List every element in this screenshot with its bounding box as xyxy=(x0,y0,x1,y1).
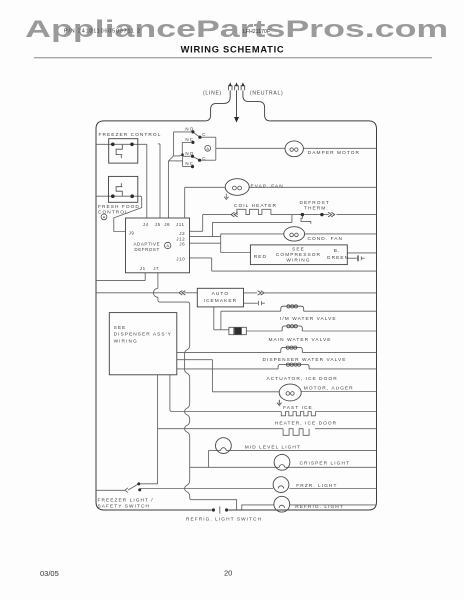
svg-text:COND. FAN: COND. FAN xyxy=(308,236,344,242)
svg-text:(NEUTRAL): (NEUTRAL) xyxy=(250,91,283,97)
svg-text:ICEMAKER: ICEMAKER xyxy=(204,298,237,304)
svg-text:NO: NO xyxy=(185,151,194,156)
svg-text:FAST ICE: FAST ICE xyxy=(283,405,313,411)
svg-text:FREEZER LIGHT /: FREEZER LIGHT / xyxy=(98,497,154,503)
svg-text:FRESH FOOD: FRESH FOOD xyxy=(98,204,140,210)
svg-text:CONTROL: CONTROL xyxy=(98,209,129,215)
svg-text:NC: NC xyxy=(185,161,194,166)
svg-text:REFRIG. LIGHT SWITCH: REFRIG. LIGHT SWITCH xyxy=(186,517,262,523)
svg-text:EVAP. FAN: EVAP. FAN xyxy=(251,184,284,190)
svg-text:WIRING: WIRING xyxy=(114,339,138,345)
svg-text:COIL HEATER: COIL HEATER xyxy=(234,203,277,209)
svg-text:DEFROST: DEFROST xyxy=(134,247,159,252)
svg-text:MOTOR, AUGER: MOTOR, AUGER xyxy=(304,386,354,392)
svg-text:I/M WATER VALVE: I/M WATER VALVE xyxy=(280,316,337,322)
svg-text:REFRIG. LIGHT: REFRIG. LIGHT xyxy=(295,504,344,510)
svg-text:THERM.: THERM. xyxy=(304,206,329,212)
svg-text:03/05: 03/05 xyxy=(40,569,59,578)
svg-text:SEE: SEE xyxy=(292,247,305,253)
svg-text:C: C xyxy=(202,156,206,161)
svg-text:B.: B. xyxy=(334,248,341,254)
svg-text:J1: J1 xyxy=(140,266,146,271)
svg-text:SEE: SEE xyxy=(114,325,127,331)
svg-text:P/N 241011060503711 2: P/N 241011060503711 2 xyxy=(64,29,141,35)
svg-text:MID LEVEL LIGHT: MID LEVEL LIGHT xyxy=(245,445,301,451)
svg-text:J2: J2 xyxy=(179,231,185,236)
svg-text:CRISPER LIGHT: CRISPER LIGHT xyxy=(300,461,350,467)
svg-text:J5: J5 xyxy=(155,222,161,227)
svg-text:MAIN WATER VALVE: MAIN WATER VALVE xyxy=(269,337,332,343)
svg-text:NC: NC xyxy=(185,137,194,142)
svg-text:20: 20 xyxy=(224,569,232,578)
svg-text:J6: J6 xyxy=(179,241,185,246)
svg-text:ACTUATOR, ICE DOOR: ACTUATOR, ICE DOOR xyxy=(267,376,338,382)
svg-text:AUTO: AUTO xyxy=(212,291,229,297)
svg-text:LFH21170F: LFH21170F xyxy=(243,29,270,35)
svg-text:NO: NO xyxy=(185,126,194,131)
svg-text:(LINE): (LINE) xyxy=(203,90,222,96)
svg-text:FRZR. LIGHT: FRZR. LIGHT xyxy=(296,483,337,489)
svg-text:DAMPER MOTOR: DAMPER MOTOR xyxy=(308,150,360,156)
svg-text:FREEZER CONTROL: FREEZER CONTROL xyxy=(99,132,162,138)
svg-text:DISPENSER ASS'Y: DISPENSER ASS'Y xyxy=(114,332,172,338)
svg-text:DISPENSER WATER VALVE: DISPENSER WATER VALVE xyxy=(263,357,347,363)
svg-text:J10: J10 xyxy=(176,257,185,262)
svg-text:COMPRESSOR: COMPRESSOR xyxy=(276,252,321,258)
svg-text:WIRING SCHEMATIC: WIRING SCHEMATIC xyxy=(181,44,285,54)
svg-text:GREEN: GREEN xyxy=(327,255,349,261)
svg-text:A: A xyxy=(166,243,169,248)
svg-text:SAFETY SWITCH: SAFETY SWITCH xyxy=(98,503,150,509)
svg-text:C: C xyxy=(202,132,206,137)
svg-text:J11: J11 xyxy=(176,222,185,227)
svg-text:A: A xyxy=(206,146,209,151)
svg-text:ADAPTIVE: ADAPTIVE xyxy=(134,242,161,247)
svg-text:RED: RED xyxy=(254,254,267,260)
svg-text:HEATER, ICE DOOR: HEATER, ICE DOOR xyxy=(275,420,337,426)
svg-text:DEFROST: DEFROST xyxy=(300,200,330,206)
svg-text:J7: J7 xyxy=(153,266,159,271)
svg-text:J9: J9 xyxy=(129,231,135,236)
svg-text:J4: J4 xyxy=(143,222,149,227)
svg-text:WIRING: WIRING xyxy=(286,257,310,263)
svg-text:J8: J8 xyxy=(164,222,170,227)
